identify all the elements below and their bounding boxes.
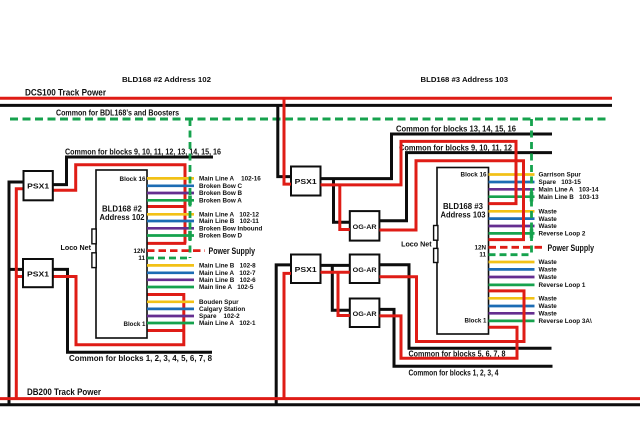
wire: BLD168 #3 block output (green) Reverse Loop 1 xyxy=(489,284,535,287)
svg-text:Block 1: Block 1 xyxy=(124,321,146,328)
svg-text:Block 16: Block 16 xyxy=(120,176,146,183)
wire: black feeder from lower-right PSX1 down to DB200 bus xyxy=(276,265,291,405)
wire: PSX1 lower-left black to common 1-8 bus xyxy=(53,269,212,352)
wire: BLD168 #3 block output (blue) Waste xyxy=(489,305,535,308)
svg-text:PSX1: PSX1 xyxy=(295,267,317,274)
wire: BLD168 #3 block output (yellow) Waste xyxy=(489,261,535,264)
wire: DCS100 black track bus xyxy=(0,104,612,107)
wire: BLD168 #2 block output (blue) Main Line A 102-7 xyxy=(147,271,194,274)
svg-text:OG-AR: OG-AR xyxy=(353,267,377,274)
wire: black tee down to OG-AR #1 xyxy=(334,179,350,223)
svg-text:Address 102: Address 102 xyxy=(100,212,145,222)
wire: DCS100 red track bus xyxy=(0,97,612,100)
wire: red feed 4 (OG-AR #3 under BLD168 #3 to group 4) xyxy=(379,316,517,358)
svg-text:Waste: Waste xyxy=(539,223,558,230)
wire: 12N power-supply red dashed (right) xyxy=(489,246,544,249)
wire: red feed 3 (OG-AR #2 under BLD168 #3 to group 3) xyxy=(379,277,524,342)
svg-text:Bouden Spur: Bouden Spur xyxy=(199,299,239,306)
svg-text:PSX1: PSX1 xyxy=(295,179,317,186)
module: OG-AR auto-reverser #2 xyxy=(350,255,380,284)
svg-text:OG-AR: OG-AR xyxy=(353,224,377,231)
wire: OG-AR #3 black to common 1-4 bus xyxy=(379,309,552,366)
svg-text:11: 11 xyxy=(479,252,486,259)
svg-text:Block 1: Block 1 xyxy=(465,318,487,325)
connector: Loco Net port 1 (left BLD) xyxy=(92,229,96,244)
svg-text:Main Line A 103-14: Main Line A 103-14 xyxy=(539,187,599,194)
junction: green common to Broken Bow D xyxy=(188,231,192,241)
wire: BLD168 #2 block output (blue) Broken Bow C xyxy=(147,184,194,187)
svg-text:BLD168 #3 Address 103: BLD168 #3 Address 103 xyxy=(421,75,509,84)
svg-text:Reverse Loop 2: Reverse Loop 2 xyxy=(539,231,586,238)
wire: red tee down to OG-AR #3 xyxy=(338,272,350,315)
svg-text:Waste: Waste xyxy=(539,311,558,318)
connector: Loco Net port 2 (left BLD) xyxy=(92,253,96,268)
wire: red wrap lower-left (PSX1 under BLD168 #2) xyxy=(53,277,184,345)
svg-text:Main Line B 102-8: Main Line B 102-8 xyxy=(199,263,256,270)
wire: BLD168 #3 block output (purple) Waste xyxy=(489,312,535,315)
svg-text:Calgary Station: Calgary Station xyxy=(199,306,245,313)
svg-text:12N: 12N xyxy=(474,245,486,252)
wire: PSX1 upper-right black to common 13-16 bus xyxy=(321,134,553,179)
svg-text:Block 16: Block 16 xyxy=(461,171,487,178)
svg-text:Loco Net: Loco Net xyxy=(401,242,432,249)
module: OG-AR auto-reverser #3 xyxy=(350,299,380,328)
svg-text:BLD168 #2 Address 102: BLD168 #2 Address 102 xyxy=(122,75,211,84)
wire: red tap into BLD168 #2 between groups A-B xyxy=(147,205,185,208)
svg-text:DCS100 Track Power: DCS100 Track Power xyxy=(25,87,106,98)
wire: 12N power-supply red dashed (left) xyxy=(147,249,205,252)
svg-text:Broken Bow B: Broken Bow B xyxy=(199,190,242,197)
svg-text:Waste: Waste xyxy=(539,303,558,310)
svg-text:Common for BDL168’s and Booste: Common for BDL168’s and Boosters xyxy=(56,108,179,117)
svg-text:PSX1: PSX1 xyxy=(27,271,49,278)
wire: DB200 red track bus xyxy=(0,397,640,400)
svg-text:Broken Bow Inbound: Broken Bow Inbound xyxy=(199,226,262,233)
svg-text:Common for blocks 1, 2, 3, 4,: Common for blocks 1, 2, 3, 4, 5, 6, 7, 8 xyxy=(69,354,213,363)
wire: BLD168 #3 block output (purple) Waste xyxy=(489,276,535,279)
svg-text:Main Line B 103-13: Main Line B 103-13 xyxy=(539,194,600,201)
svg-text:Waste: Waste xyxy=(539,216,558,223)
wire: red feeder vertical from upper-left PSX1 down to DB200 red bus xyxy=(16,189,23,399)
connector: Loco Net port 1 (right BLD) xyxy=(434,226,438,241)
module: BLD168 #3 occupancy detector xyxy=(437,168,489,335)
svg-text:PSX1: PSX1 xyxy=(27,184,49,191)
wire: lower-left PSX1 black tap xyxy=(9,268,23,271)
wire: PSX1 lower-right black to OG-AR #2 xyxy=(321,264,350,267)
wire: red wrap upper-left (PSX1 to BLD168 #2 feeds) xyxy=(53,165,185,244)
connector: Loco Net port 2 (right BLD) xyxy=(434,248,438,262)
module: PSX1 circuit breaker upper-right xyxy=(291,167,321,196)
wire: BLD168 #2 block output (blue) Main Line B 102-11 xyxy=(147,220,194,223)
wire: BLD168 #3 block output (green) Main Line B 103-13 xyxy=(489,195,535,198)
svg-text:Broken Bow C: Broken Bow C xyxy=(199,183,242,190)
svg-text:Common for blocks 9, 10, 11, 1: Common for blocks 9, 10, 11, 12 xyxy=(399,143,513,152)
wire: BLD168 #2 block output (purple) Broken Bow B xyxy=(147,192,194,195)
wire: lower-left PSX1 red tap xyxy=(16,275,23,278)
wire: common green dashed bus xyxy=(10,118,610,121)
wire: BLD168 #2 block output (purple) Spare 102-2 xyxy=(147,315,194,318)
wire: BLD168 #3 block output (green) Reverse Loop 2 xyxy=(489,232,535,235)
wire: BLD168 #3 block output (yellow) Garrison Spur xyxy=(489,173,535,176)
wire: red drop from DCS100 bus to upper-right PSX1 xyxy=(284,98,291,184)
wire: BLD168 #3 block output (yellow) Waste xyxy=(489,297,535,300)
wire: black tee down to OG-AR #3 xyxy=(332,265,350,310)
wire: red feed 2 (OG-AR #1 to BLD168 #3 below group 2) xyxy=(379,161,523,240)
svg-text:Waste: Waste xyxy=(539,259,558,266)
wire: BLD168 #2 block output (purple) Main Line B 102-6 xyxy=(147,278,194,281)
wire: BLD168 #3 block output (blue) Spare 103-15 xyxy=(489,181,535,184)
wire: OG-AR #2 black to common 5-8 bus xyxy=(379,265,551,349)
svg-text:DB200 Track Power: DB200 Track Power xyxy=(27,387,101,398)
wire: BLD168 #2 block output (yellow) Bouden Spur xyxy=(147,300,194,303)
wire: BLD168 #3 block output (blue) Waste xyxy=(489,217,535,220)
svg-text:Spare 102-2: Spare 102-2 xyxy=(199,313,240,320)
svg-text:Common for blocks 9, 10, 11, 1: Common for blocks 9, 10, 11, 12, 13, 14,… xyxy=(65,147,221,156)
svg-text:Reverse Loop 1: Reverse Loop 1 xyxy=(539,282,586,289)
svg-text:Broken Bow D: Broken Bow D xyxy=(199,233,242,240)
wire: BLD168 #2 block output (green) Broken Bow D xyxy=(147,234,194,237)
svg-text:Main Line A 102-16: Main Line A 102-16 xyxy=(199,176,261,183)
module: PSX1 circuit breaker lower-right xyxy=(291,255,321,284)
wire: BLD168 #2 block output (yellow) Main Line A 102-16 xyxy=(147,177,194,180)
wire: red tap into BLD168 #2 below group B xyxy=(147,242,186,245)
svg-text:Main Line B 102-11: Main Line B 102-11 xyxy=(199,218,259,225)
module: PSX1 circuit breaker upper-left xyxy=(24,171,53,200)
svg-text:Loco Net: Loco Net xyxy=(61,245,92,252)
module: OG-AR auto-reverser #1 xyxy=(350,211,380,241)
svg-text:Main Line A 102-7: Main Line A 102-7 xyxy=(199,270,256,277)
wire: pin 11 common green dashed (right) xyxy=(489,253,532,256)
wire: BLD168 #3 block output (green) Reverse Loop 3A\ xyxy=(489,320,535,323)
wire: PSX1 lower-right red to OG-AR #2 xyxy=(321,271,350,274)
wire: BLD168 #2 block output (yellow) Main Line A 102-12 xyxy=(147,213,194,216)
wire: BLD168 #2 block output (purple) Broken Bow Inbound xyxy=(147,227,194,230)
svg-text:Waste: Waste xyxy=(539,296,558,303)
svg-text:Main line A 102-5: Main line A 102-5 xyxy=(199,284,254,291)
wire: green dashed common drop (right) xyxy=(530,119,533,255)
wire: BLD168 #2 block output (green) Broken Bow A xyxy=(147,199,194,202)
wire: BLD168 #2 block output (yellow) Main Line B 102-8 xyxy=(147,264,194,267)
wire: pin 11 common green dashed (left) xyxy=(147,257,190,260)
wire: BLD168 #2 block output (green) Main Line A 102-1 xyxy=(147,322,194,325)
module: PSX1 circuit breaker lower-left xyxy=(23,259,53,287)
svg-text:Common for blocks 1, 2, 3, 4: Common for blocks 1, 2, 3, 4 xyxy=(409,368,499,377)
svg-text:OG-AR: OG-AR xyxy=(353,311,377,318)
svg-text:Main Line B 102-6: Main Line B 102-6 xyxy=(199,277,256,284)
junction: green common to Broken Bow A xyxy=(188,196,192,206)
wire: OG-AR #1 black to common 9-12 bus xyxy=(379,153,552,221)
wire: red feed 1 (PSX1 upper-right around to BLD168 #3 above group 2) xyxy=(321,141,517,203)
wire: black feeder vertical from upper-left PSX1 down to DB200 bus xyxy=(9,182,24,405)
svg-text:Address 103: Address 103 xyxy=(441,210,486,220)
wire: green dashed common drop (left) xyxy=(189,119,192,258)
svg-text:Waste: Waste xyxy=(539,209,558,216)
svg-text:Broken Bow A: Broken Bow A xyxy=(199,198,242,205)
wire: red feeder from lower-right PSX1 down to DB200 red bus xyxy=(284,273,291,398)
svg-text:11: 11 xyxy=(138,255,145,262)
wire: BLD168 #3 block output (yellow) Waste xyxy=(489,210,535,213)
wire: BLD168 #3 block output (blue) Waste xyxy=(489,268,535,271)
svg-text:Waste: Waste xyxy=(539,267,558,274)
svg-text:Garrison Spur: Garrison Spur xyxy=(539,172,582,179)
wire: BLD168 #3 block output (purple) Waste xyxy=(489,225,535,228)
wire: black drop from DCS100 bus to upper-right PSX1 xyxy=(278,105,291,176)
svg-text:Common for blocks 13, 14, 15,: Common for blocks 13, 14, 15, 16 xyxy=(396,125,517,134)
svg-text:Reverse Loop 3A\: Reverse Loop 3A\ xyxy=(539,318,592,325)
svg-text:Main Line A 102-1: Main Line A 102-1 xyxy=(199,320,256,327)
wire: PSX1 upper-left black to common 9-16 bus xyxy=(53,157,213,185)
junction: green common to Reverse Loop 2 xyxy=(530,229,534,239)
wire: BLD168 #3 block output (purple) Main Line A 103-14 xyxy=(489,188,535,191)
wire: DB200 black track bus xyxy=(0,403,640,406)
svg-text:Power Supply: Power Supply xyxy=(209,246,256,257)
svg-text:Waste: Waste xyxy=(539,274,558,281)
svg-text:Spare 103-15: Spare 103-15 xyxy=(539,179,582,186)
wire: red tee down to OG-AR #1 xyxy=(340,185,350,230)
module: BLD168 #2 occupancy detector xyxy=(96,170,147,338)
wire: red tap into BLD168 #2 below group D xyxy=(147,329,185,332)
wire: BLD168 #2 block output (green) Main line A 102-5 xyxy=(147,286,194,289)
wire: BLD168 #2 block output (blue) Calgary Station xyxy=(147,308,194,311)
junction: green common to Main Line B 103-13 xyxy=(530,192,534,202)
svg-text:Power Supply: Power Supply xyxy=(548,243,595,254)
